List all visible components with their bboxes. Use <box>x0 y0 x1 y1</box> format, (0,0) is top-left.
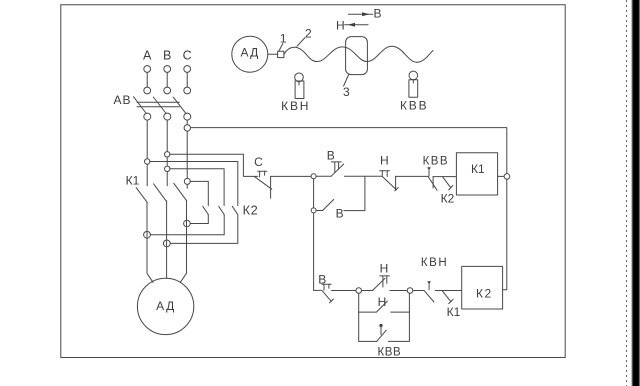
breaker output circle А <box>144 113 151 120</box>
coupling 1 (square) <box>278 51 284 57</box>
leader line for label 2 <box>297 38 305 47</box>
wire node3 to Н contact <box>362 290 373 292</box>
wire node4 to КВН <box>413 290 424 292</box>
wire С node to К2 pole1 <box>190 181 208 205</box>
svg-text:А: А <box>143 49 152 63</box>
wire node2 to lower В contact <box>316 210 323 212</box>
button Н NO blade <box>373 278 385 290</box>
scan page edge: black bar <box>631 0 640 386</box>
svg-text:С: С <box>183 49 192 63</box>
branch КВВ: right rise <box>408 312 410 341</box>
wire motor line А <box>147 202 153 282</box>
terminal В top <box>164 66 171 73</box>
terminal А lower <box>144 87 151 94</box>
svg-text:АД: АД <box>241 45 260 59</box>
svg-text:3: 3 <box>343 85 350 99</box>
scan page edge: dotted line <box>626 0 627 386</box>
border frame <box>61 5 565 358</box>
contactor К1 blade pole В <box>154 184 166 201</box>
svg-text:В: В <box>163 49 171 63</box>
contact Н NC barb <box>395 188 399 191</box>
svg-text:1: 1 <box>280 32 287 46</box>
motor АД circle <box>137 278 193 334</box>
junction to lower В branch <box>364 176 366 210</box>
node right rail <box>504 174 510 180</box>
coil К1 box <box>456 153 497 195</box>
svg-text:К2: К2 <box>243 204 259 218</box>
breaker output circle В <box>164 113 171 120</box>
stop button С: NC blade <box>255 177 272 189</box>
terminal С lower <box>184 87 191 94</box>
svg-text:К1: К1 <box>447 305 461 319</box>
wire Н to КВВ <box>396 175 429 177</box>
button В NC ticks <box>322 283 331 285</box>
branch Н parallel: left drop <box>358 293 360 312</box>
wire КВВ to К2 contact <box>433 176 456 178</box>
svg-text:2: 2 <box>305 26 312 40</box>
svg-text:КВН: КВН <box>421 257 448 269</box>
svg-text:Н: Н <box>380 154 389 168</box>
wire К2 pole1 output crossover to С <box>190 215 208 224</box>
wire А drop <box>146 72 148 87</box>
wire В node to control circuit <box>170 154 258 176</box>
svg-text:В: В <box>327 148 335 162</box>
node feed В to К2 <box>165 166 170 171</box>
direction arrow В (right) <box>349 13 373 15</box>
interlock К2 NC blade <box>443 177 451 188</box>
carriage 3 (rounded rect) <box>346 37 368 75</box>
wire motor line С <box>180 200 186 282</box>
limit switch КВВ pictogram <box>409 71 418 80</box>
КВН actuator arrow <box>427 281 431 284</box>
svg-text:КВВ: КВВ <box>400 98 428 112</box>
contact Н NC blade <box>382 177 396 190</box>
node feed В to control <box>165 152 170 157</box>
svg-text:С: С <box>254 155 263 169</box>
wire lower В to junction <box>344 210 365 212</box>
interlock К1 NC blade <box>442 290 451 301</box>
svg-text:К2: К2 <box>476 287 493 301</box>
wire С drop <box>186 72 188 87</box>
branch Н parallel: right rise <box>408 293 410 312</box>
wire В node to К2 pole2 <box>170 169 224 206</box>
wire К1 NC to К2 coil <box>451 290 461 292</box>
button Н NO ticks <box>380 275 390 277</box>
contactor К1 blade pole А <box>136 188 147 203</box>
node К2 output on А <box>144 231 151 238</box>
svg-text:К1: К1 <box>471 162 485 176</box>
node feed С to К2 <box>184 178 190 184</box>
branch КВВ: wire left <box>359 340 377 342</box>
contact Н fixed post <box>395 176 397 190</box>
stop button С: NC contact ticks <box>258 170 267 172</box>
svg-text:АВ: АВ <box>113 93 131 107</box>
right rail down <box>503 179 507 290</box>
node К2 output on В <box>163 240 170 247</box>
limit switch КВН pictogram <box>295 73 304 82</box>
wire В drop <box>166 72 168 87</box>
wire phase В bus down to К1 <box>166 120 168 186</box>
contactor К2 blade pole2 <box>219 206 225 214</box>
svg-text:Н: Н <box>336 18 345 32</box>
wire К2 pole2 output crossover to А <box>150 215 224 235</box>
svg-text:Н: Н <box>380 261 389 275</box>
node feed А to К2 <box>145 159 150 164</box>
wire node1 to button В <box>316 175 331 177</box>
vertical bus node1-node2 <box>313 179 315 208</box>
coil К2 box <box>462 266 503 309</box>
interlock К1 NC barb <box>449 299 454 303</box>
node1 (junction) <box>311 174 316 179</box>
breaker АВ blade pole С <box>173 97 186 114</box>
contactor К1 blade pole С <box>174 183 186 200</box>
svg-text:К1: К1 <box>126 174 140 188</box>
wire motor line В <box>166 201 168 279</box>
wire phase А bus down to К1 <box>146 120 148 186</box>
wire К2 pole3 output crossover to В <box>170 215 238 244</box>
svg-text:КВВ: КВВ <box>423 156 449 168</box>
button В NO contact ticks <box>331 161 341 163</box>
motor АД (mechanical sketch) <box>232 36 268 72</box>
contactor К2 blade pole3 <box>232 206 238 214</box>
svg-text:В: В <box>336 207 344 221</box>
vertical bus node2 to К2 rung <box>313 213 315 291</box>
node К2 output on С <box>184 220 191 227</box>
wire А node to К2 pole3 <box>150 162 238 206</box>
КВВ NC blade <box>428 177 437 191</box>
leader line for label 3 <box>344 75 349 86</box>
branch КВВ: left drop <box>358 312 360 341</box>
direction arrow Н (left) <box>345 24 368 26</box>
svg-text:АД: АД <box>156 299 176 313</box>
wire Н to node4 <box>390 290 407 292</box>
wire phase С bus down to К1 <box>186 120 188 188</box>
wire С to node1 <box>271 175 312 177</box>
wire В NC to node3 <box>332 290 357 292</box>
wire control feed top rail <box>191 128 507 177</box>
branch Н NO blade (parallel) <box>377 301 388 312</box>
КВВ actuator arrow <box>427 167 431 170</box>
branch Н parallel: wire right <box>391 311 410 313</box>
button В NO blade <box>331 164 344 176</box>
branch Н parallel: wire left <box>359 311 377 313</box>
stop button С: fixed post <box>270 176 272 198</box>
svg-text:КВН: КВН <box>281 99 310 113</box>
interlock К2 NC barb <box>449 185 453 189</box>
rope 2 (wavy line) <box>284 46 433 62</box>
branch КВВ NO blade <box>377 330 386 341</box>
svg-text:КВВ: КВВ <box>377 347 401 359</box>
breaker output circle С <box>184 113 191 120</box>
lower button В NO blade <box>323 200 334 211</box>
wire КВН to К1 contact <box>435 290 451 292</box>
contactor К2 blade pole1 <box>203 206 209 214</box>
branch КВВ: wire right <box>388 340 409 342</box>
terminal В lower <box>164 87 171 94</box>
wire К1 coil to right rail <box>498 175 507 177</box>
breaker АВ blade pole В <box>153 97 166 114</box>
button В NC blade <box>323 291 332 301</box>
svg-text:В: В <box>373 6 381 20</box>
terminal А top <box>144 66 151 73</box>
КВВ fixed post <box>432 177 434 188</box>
КВВ actuator dot <box>379 324 382 327</box>
wire В NC corner <box>314 289 322 291</box>
svg-text:Н: Н <box>378 295 387 309</box>
wire В to junction <box>345 175 383 177</box>
wire motor shaft <box>268 53 278 55</box>
node2 (junction lower) <box>311 208 316 213</box>
КВН NO blade <box>424 290 434 302</box>
svg-text:К2: К2 <box>441 192 455 206</box>
node: control tap on С <box>184 125 190 131</box>
node4 <box>407 288 413 294</box>
node3 <box>356 288 362 294</box>
button В NC barb <box>330 299 334 303</box>
leader line for label 1 <box>279 44 283 51</box>
contact Н NC ticks <box>380 170 390 172</box>
breaker АВ blade pole А <box>134 97 147 114</box>
breaker АВ linkage bar <box>137 101 179 103</box>
terminal С top <box>184 66 191 73</box>
